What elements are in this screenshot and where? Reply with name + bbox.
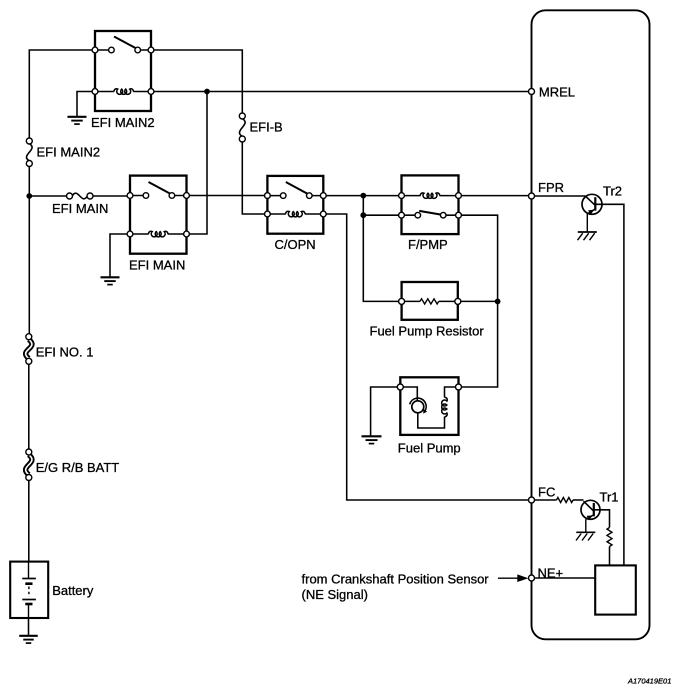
ground: battery ground [19,636,38,643]
label "Tr1" [600,490,619,505]
label "Fuel Pump Resistor" [370,323,485,338]
battery cells [22,562,36,618]
wire: motor to coil (bottom path) [418,413,445,428]
svg-text:(NE Signal): (NE Signal) [302,587,368,602]
wire: FC internal [532,499,557,501]
svg-text:EFI MAIN2: EFI MAIN2 [37,145,101,160]
relay F/PMP (coil on top row, switch below) [399,175,462,234]
relay EFI MAIN [127,176,189,254]
wire: between EFI MAIN2 fuse and EFI MAIN node [28,164,30,197]
svg-text:F/PMP: F/PMP [408,237,448,252]
resistor on Tr1 collector line [607,528,612,547]
motor M (pump) [410,398,428,413]
node: junction at EFI MAIN branch [26,193,32,199]
svg-text:FC: FC [538,485,555,500]
wire: EFI-B fuse down, to C/OPN relay coil [242,139,267,214]
wire: C/OPN switch to F/PMP coil row [323,195,401,197]
wire: battery feed up-left to EFI MAIN2 relay switch [29,50,95,141]
label "Fuel Pump" [398,440,461,455]
label "FC" [538,485,555,500]
label "Battery" [52,583,94,598]
coil inside fuel pump [442,397,448,417]
relay EFI MAIN2 [92,31,154,111]
node: branch junction on F/PMP feed [360,193,366,199]
resistor on FC line [557,498,574,503]
wire: down to EFI NO. 1 fusible link [28,196,30,337]
node FPR terminal [529,193,535,199]
svg-text:EFI NO. 1: EFI NO. 1 [36,344,94,359]
ground: fuel pump ground [362,436,382,443]
svg-text:Fuel Pump: Fuel Pump [398,440,461,455]
fuse EFI-B [239,113,245,142]
wire: EFI MAIN coil left to ground [110,234,130,277]
fuse EFI MAIN [67,193,94,199]
wire: branch down to EFI MAIN relay coil [187,92,208,235]
ECM box (engine control module) [532,10,650,639]
wire: EFI NO. 1 to E/G R/B BATT [28,361,30,452]
fuel pump resistor box [399,282,461,320]
svg-text:E/G R/B BATT: E/G R/B BATT [36,460,120,475]
label "EFI MAIN" (relay) [129,258,185,273]
label "EFI-B" (fuse) [250,120,283,135]
svg-text:Fuel Pump Resistor: Fuel Pump Resistor [370,323,485,338]
transistor Tr1 [581,500,600,531]
transistor Tr2 [582,194,602,231]
label "(NE Signal)" [302,587,368,602]
ground: EFI MAIN relay coil ground [101,277,120,284]
svg-text:from Crankshaft Position Senso: from Crankshaft Position Sensor [302,572,490,587]
relay C/OPN [265,176,327,234]
svg-text:EFI MAIN: EFI MAIN [52,201,108,216]
wire: FPR internal to Tr2 [532,195,586,197]
svg-text:Tr1: Tr1 [600,490,619,505]
wire: EFI MAIN switch to C/OPN switch [187,195,268,197]
wire: EFI MAIN2 coil left to ground [77,92,95,117]
label "EFI MAIN2" (relay) [91,115,155,130]
wire: E/G R/B BATT to battery [28,478,30,563]
wire: EFI MAIN fuse to EFI MAIN relay [90,195,130,197]
wire: Tr1 collector right and down [594,510,610,528]
label "A170419E01" (figure number) [627,677,671,686]
svg-text:Tr2: Tr2 [603,184,622,199]
wire: fuel pump left terminal to ground [371,387,401,436]
svg-text:EFI MAIN2: EFI MAIN2 [91,115,155,130]
label "Tr2" [603,184,622,199]
wire: NE+ terminal to NE block [532,577,596,579]
wire: coil top to right terminal [445,387,459,397]
label "MREL" [539,85,575,100]
label "E/G R/B BATT" [36,460,120,475]
arrow into NE+ [498,574,529,582]
wire: branch down to fuel pump resistor [363,215,401,301]
wire: C/OPN coil down and right to ECM FC terminal [323,214,531,500]
node: MREL wire branch junction [204,89,210,95]
wire: fuel pump internal left to motor [400,387,417,401]
svg-text:EFI MAIN: EFI MAIN [129,258,185,273]
wire: battery to ground [28,618,30,635]
wire: resistor to Tr1 [573,499,584,501]
wire: branch down to F/PMP switch row [363,196,401,216]
svg-text:EFI-B: EFI-B [250,120,283,135]
wire: Tr2 collector right and down to NE block [595,204,624,565]
wire: F/PMP switch out, down to fuel pump [459,215,498,387]
node: junction at F/PMP switch row [360,212,366,218]
fuel pump terminals [397,384,461,390]
fusible link EFI NO. 1 [26,334,32,365]
node FC terminal [529,497,535,503]
ground: Tr1 emitter ground [576,532,595,540]
svg-text:Battery: Battery [52,583,94,598]
wire: fuel pump resistor right to junction [458,300,498,302]
label "EFI NO. 1" [36,344,94,359]
label "NE+" [538,566,564,581]
node NE+ terminal [529,575,535,581]
wire: EFI MAIN2 coil to ECM MREL terminal [151,91,532,93]
label "F/PMP" [408,237,448,252]
label "C/OPN" [275,237,316,252]
NE signal block [595,565,636,614]
label "EFI MAIN" (fuse) [52,201,108,216]
wire: node to EFI MAIN fuse [29,195,69,197]
node MREL terminal [529,89,535,95]
svg-text:NE+: NE+ [538,566,564,581]
ground: Tr2 emitter ground [578,232,597,240]
fusible link E/G R/B BATT [26,449,32,481]
node: junction fuel pump resistor output [495,299,501,305]
label "from Crankshaft Position Sensor" [302,572,490,587]
wire: F/PMP coil to ECM FPR terminal [459,195,532,197]
wire: EFI MAIN2 switch out, right and down to EFI-B fuse [151,50,242,116]
svg-text:C/OPN: C/OPN [275,237,316,252]
fuel pump box [400,377,458,435]
battery box [10,562,48,618]
svg-text:A170419E01: A170419E01 [627,677,671,686]
ground: EFI MAIN2 relay coil ground [68,117,87,124]
svg-text:FPR: FPR [538,180,564,195]
wire: resistor to NE block [609,547,611,566]
svg-text:MREL: MREL [539,85,575,100]
fuse EFI MAIN2 [26,138,32,167]
label "EFI MAIN2" (fuse) [37,145,101,160]
label "FPR" [538,180,564,195]
